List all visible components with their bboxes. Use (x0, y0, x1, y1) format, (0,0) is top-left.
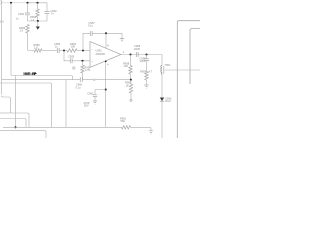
node B (26, 2, 28, 4)
resistor R961 (122, 126, 131, 129)
wire branch to non-inverting path (64, 51, 70, 61)
ground at C957 (121, 33, 123, 38)
polarity mark (72, 67, 75, 69)
resistor R957 (82, 61, 84, 65)
ground at R959 (144, 85, 148, 88)
wire long mid rail (2, 79, 80, 81)
node C (36, 2, 38, 4)
node J (145, 53, 147, 55)
svg-text:4.7: 4.7 (149, 70, 153, 74)
op-amp U951 (90, 42, 121, 68)
node I (129, 53, 131, 55)
capacitor C958 (136, 52, 138, 57)
diode D951 (160, 98, 164, 102)
resistor R960 (129, 84, 132, 93)
capacitor C955 (70, 58, 72, 63)
node A (10, 2, 12, 4)
outer shield box (177, 21, 200, 138)
capacitor C951 (27, 3, 29, 13)
svg-text:C955: C955 (68, 55, 75, 59)
wire bottom edge rail (0, 131, 46, 138)
wire y83 with corner drop x51.5 (0, 83, 52, 127)
wire to + input (72, 60, 90, 62)
svg-text:4.7K: 4.7K (85, 68, 91, 72)
capacitor C952 (46, 3, 48, 12)
resistor R959 (145, 72, 148, 81)
ground at bottom rail (149, 131, 153, 134)
svg-text:-: - (91, 49, 92, 52)
wire VCC rail (12, 76, 72, 80)
capacitor C959 (146, 55, 148, 59)
resistor R955 (67, 49, 77, 52)
wire diode down (161, 101, 163, 138)
node K (130, 79, 132, 81)
feedback capacitor C957 (83, 33, 90, 50)
node H (105, 32, 107, 34)
capacitor C961 (95, 90, 106, 95)
connector circle on rail (93, 79, 95, 81)
wire to inverting input (77, 50, 90, 52)
transformer T951 (161, 66, 162, 75)
node G (81, 60, 83, 62)
wire down and corner to input line (28, 33, 35, 51)
capacitor C954 (57, 48, 59, 53)
wire (42, 50, 57, 52)
wire y113 left stub (0, 112, 11, 114)
left border line (1, 5, 3, 95)
svg-text:C961: C961 (87, 92, 94, 96)
wire pin8 (105, 33, 107, 48)
svg-text:0.1u: 0.1u (76, 85, 82, 89)
svg-text:0.1u: 0.1u (88, 24, 94, 28)
capacitor C960 (80, 77, 82, 82)
resistor R956 (34, 49, 42, 52)
resistor R951 (37, 3, 39, 9)
resistor R952 (26, 25, 29, 34)
svg-text:560: 560 (121, 119, 126, 123)
inner shield box (190, 29, 200, 84)
wire vertical VCC feed (11, 3, 12, 76)
secondary wire (165, 69, 201, 71)
op-amp output wire (121, 54, 162, 56)
svg-text:100: 100 (124, 64, 129, 68)
svg-text:1K: 1K (126, 83, 129, 87)
svg-text:R959: R959 (140, 70, 147, 74)
wire drop x66 (65, 80, 67, 128)
wire y118.5 with corner x26 (0, 119, 26, 128)
svg-text:AN5265: AN5265 (96, 52, 106, 56)
ground (arrow style) (37, 21, 39, 27)
svg-text:1.0: 1.0 (20, 29, 24, 33)
op-amp pin4 drop (105, 61, 107, 127)
left edge connector (0, 1, 1, 5)
svg-text:10/25: 10/25 (134, 47, 141, 51)
svg-text:1.0: 1.0 (34, 46, 38, 50)
wire output to transformer (161, 55, 163, 66)
svg-text:50V: 50V (84, 104, 89, 108)
wire drop x15.5 (15, 76, 17, 128)
svg-text:1.0: 1.0 (0, 20, 4, 24)
wire long bottom rail (3, 126, 122, 128)
svg-text:100u: 100u (140, 59, 146, 63)
wire top rail (2, 2, 11, 4)
node E (63, 49, 65, 51)
resistor R958 (130, 55, 132, 66)
svg-text:C951: C951 (18, 12, 25, 16)
svg-text:10K: 10K (71, 45, 76, 49)
node F (82, 49, 84, 51)
node D (37, 20, 39, 22)
node M (105, 88, 107, 90)
node L (14, 126, 16, 128)
svg-text:RU2: RU2 (166, 99, 172, 103)
wire (59, 50, 67, 52)
wire bottom rail of RC cluster (28, 20, 48, 22)
wire nest left: y97 to x10.5 down to y113 to x29 down (2, 96, 30, 128)
svg-text:T951: T951 (165, 63, 171, 67)
